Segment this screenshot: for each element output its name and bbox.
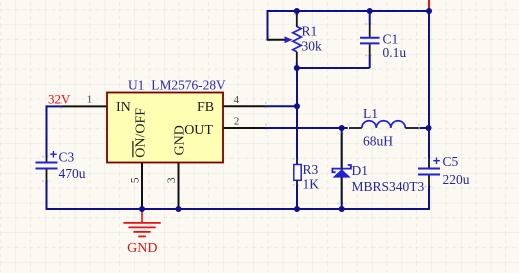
- label C1: [383, 31, 399, 46]
- svg-text:2: 2: [234, 115, 240, 127]
- junction R1 bottom: [294, 65, 300, 71]
- ground symbol GND: [123, 209, 160, 236]
- junction D1 top: [339, 125, 345, 131]
- wire left rail vertical: [46, 105, 48, 156]
- wire right rail vertical: [428, 11, 430, 158]
- pin 5 lead: [141, 163, 143, 209]
- label MBRS340T3: [352, 179, 425, 194]
- pin number 2: [234, 115, 240, 127]
- wire R1 wiper horizontal (pin lead): [267, 39, 286, 41]
- svg-text:R1: R1: [302, 24, 318, 39]
- label 470u: [59, 166, 86, 181]
- svg-text:32V: 32V: [48, 91, 71, 106]
- svg-text:LM2576-28V: LM2576-28V: [151, 78, 226, 93]
- wire L1 right to right rail: [420, 127, 429, 129]
- wire D1 top to L1: [342, 127, 348, 129]
- junction top C1: [367, 8, 373, 14]
- junction pin5 ground: [139, 206, 145, 212]
- label 0.1u: [383, 45, 407, 60]
- capacitor C5: [418, 158, 440, 187]
- capacitor C3: [36, 151, 58, 181]
- label 30k: [302, 39, 323, 54]
- wire C1 bottom stub: [369, 55, 371, 68]
- svg-text:OUT: OUT: [184, 123, 213, 138]
- pin number 3 rotated: [166, 177, 178, 183]
- net label 32V: [48, 91, 71, 106]
- pin 1 lead: [61, 105, 107, 107]
- label C5: [443, 154, 459, 169]
- pin name GND rotated: [172, 125, 187, 155]
- wire R1 wiper loop left vertical: [267, 10, 269, 40]
- pin 3 lead: [178, 163, 180, 209]
- svg-text:3: 3: [166, 177, 178, 183]
- junction pin3 ground: [176, 206, 182, 212]
- resistor R3: [294, 159, 301, 185]
- label 220u: [443, 172, 470, 187]
- wire R3 bottom to rail: [296, 185, 298, 209]
- resistor R1 potentiometer: [285, 11, 302, 68]
- wire C3 bottom to bottom rail: [46, 181, 48, 210]
- svg-text:1K: 1K: [303, 177, 320, 192]
- wire top net from R1 loop corner to right rail: [268, 10, 430, 12]
- svg-text:FB: FB: [197, 100, 214, 115]
- svg-text:220u: 220u: [443, 172, 470, 187]
- svg-text:L1: L1: [363, 106, 378, 121]
- wire FB horizontal from pin 4: [266, 105, 297, 107]
- svg-text:5: 5: [130, 177, 142, 183]
- wire red 28V stub top right: [428, 0, 430, 10]
- wire OUT net pin2 to D1: [266, 127, 342, 129]
- svg-text:U1: U1: [128, 78, 144, 93]
- svg-text:ON/OFF: ON/OFF: [134, 108, 149, 158]
- svg-text:0.1u: 0.1u: [383, 45, 407, 60]
- diode D1 MBRS340T3 schottky: [332, 128, 351, 209]
- wire bottom ground rail: [47, 208, 431, 210]
- label 68uH: [363, 134, 393, 149]
- pin 4 lead: [223, 105, 266, 107]
- wire FB vertical R1 bottom to R3: [296, 68, 298, 159]
- pin name IN: [116, 100, 131, 115]
- wire 32V corner to pin 1: [47, 105, 62, 107]
- junction top right rail: [426, 8, 432, 14]
- svg-text:GND: GND: [172, 125, 187, 155]
- label L1: [363, 106, 378, 121]
- label D1: [352, 163, 369, 178]
- svg-text:C3: C3: [59, 150, 75, 165]
- pin 2 lead: [223, 127, 266, 129]
- svg-text:470u: 470u: [59, 166, 86, 181]
- inductor L1: [349, 121, 419, 128]
- label LM2576-28V: [151, 78, 226, 93]
- label C3: [59, 150, 75, 165]
- svg-text:30k: 30k: [302, 39, 323, 54]
- pin name FB: [197, 100, 214, 115]
- wire C5 bottom to bottom rail: [428, 186, 430, 210]
- pin number 5 rotated: [130, 177, 142, 183]
- svg-text:1: 1: [87, 94, 93, 106]
- svg-text:4: 4: [234, 94, 240, 106]
- pin number 4: [234, 94, 240, 106]
- junction FB node: [294, 103, 300, 109]
- label 1K: [303, 177, 320, 192]
- svg-text:D1: D1: [352, 163, 369, 178]
- junction D1 bottom: [339, 206, 345, 212]
- svg-text:C5: C5: [443, 154, 459, 169]
- svg-text:R3: R3: [303, 162, 319, 177]
- junction top R1: [294, 8, 300, 14]
- wire R1 bottom to C1 bottom: [297, 67, 370, 69]
- label U1: [128, 78, 144, 93]
- pin number 1: [87, 94, 93, 106]
- svg-text:GND: GND: [127, 241, 157, 256]
- svg-text:68uH: 68uH: [363, 134, 393, 149]
- svg-text:MBRS340T3: MBRS340T3: [352, 179, 425, 194]
- IC U1 LM2576-28V body: [107, 93, 223, 163]
- label R3: [303, 162, 319, 177]
- pin name OUT: [184, 123, 213, 138]
- svg-text:IN: IN: [116, 100, 131, 115]
- label GND: [127, 241, 157, 256]
- junction R3 bottom: [294, 206, 300, 212]
- junction L1 right rail: [426, 125, 432, 131]
- pin name ON/OFF rotated: [132, 108, 148, 158]
- label R1: [302, 24, 318, 39]
- capacitor C1: [360, 11, 380, 56]
- pin hotspot markers: [42, 19, 434, 208]
